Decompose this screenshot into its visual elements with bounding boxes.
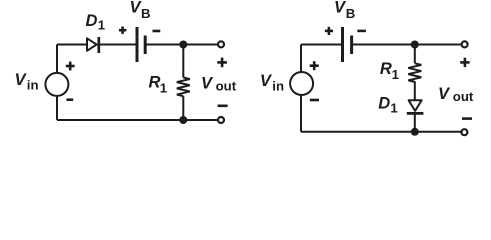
svg-text:1: 1 <box>390 100 397 115</box>
minus sign of Vin source right circuit <box>310 99 319 102</box>
svg-text:D: D <box>86 12 98 30</box>
wire right circuit branch lead resistor to diode <box>414 81 416 100</box>
wire right circuit bottom rail <box>301 131 461 133</box>
wire left circuit resistor branch bottom lead <box>182 96 184 120</box>
svg-text:1: 1 <box>392 67 399 82</box>
svg-text:R: R <box>380 60 392 78</box>
wire right circuit left vertical top <box>300 45 302 72</box>
wire left circuit top rail segment diode bar to battery <box>99 44 136 46</box>
source Vin left circuit <box>45 73 68 96</box>
source Vin right circuit <box>290 72 313 95</box>
svg-text:in: in <box>272 79 284 94</box>
diode D1 right circuit triangle and cathode bar <box>407 100 424 113</box>
svg-text:B: B <box>346 6 356 21</box>
wire left circuit top rail segment from corner to diode <box>57 44 87 46</box>
battery VB right circuit long and short plates <box>343 27 352 62</box>
svg-text:D: D <box>378 94 390 112</box>
wire right circuit branch lead junction to resistor <box>414 45 416 64</box>
svg-text:V: V <box>438 85 451 103</box>
svg-text:B: B <box>141 6 151 21</box>
svg-text:V: V <box>15 71 28 89</box>
node top junction left circuit <box>179 41 187 49</box>
minus sign of Vin source left circuit <box>66 98 73 101</box>
plus sign of Vin source left circuit <box>66 62 75 71</box>
svg-text:R: R <box>149 73 161 91</box>
minus sign of Vout left circuit <box>218 105 228 108</box>
wire right circuit top rail segment corner to battery <box>301 44 341 46</box>
plus sign of battery VB left circuit <box>119 27 126 34</box>
wire right circuit left vertical bottom <box>300 95 302 131</box>
wire left circuit top rail segment battery to top terminal <box>146 44 217 46</box>
wire left circuit bottom rail <box>57 119 217 121</box>
wire left circuit left vertical bottom <box>56 96 58 120</box>
minus sign of Vout right circuit <box>462 117 472 120</box>
svg-text:1: 1 <box>160 80 167 95</box>
terminal top left circuit <box>218 41 224 47</box>
terminal bottom right circuit <box>461 129 467 135</box>
resistor R1 left circuit zigzag <box>177 78 190 97</box>
node top junction right circuit <box>411 41 419 49</box>
battery VB left circuit long and short plates <box>137 27 145 62</box>
terminal bottom left circuit <box>218 117 224 123</box>
node bottom junction left circuit <box>179 116 187 124</box>
svg-text:1: 1 <box>98 17 105 32</box>
minus sign of battery VB right circuit <box>357 30 366 33</box>
plus sign of Vin source right circuit <box>310 61 319 70</box>
plus sign of Vout right circuit <box>460 58 469 67</box>
node bottom junction right circuit <box>411 128 419 136</box>
diode D1 left circuit triangle and cathode bar <box>87 37 99 53</box>
svg-text:in: in <box>27 78 39 93</box>
svg-text:out: out <box>453 89 474 104</box>
wire right circuit branch lead diode bar to bottom junction <box>414 113 416 131</box>
plus sign of battery VB right circuit <box>325 27 333 35</box>
svg-text:V: V <box>201 75 214 93</box>
plus sign of Vout left circuit <box>217 58 227 68</box>
resistor R1 right circuit zigzag <box>408 63 421 82</box>
minus sign of battery VB left circuit <box>153 30 161 33</box>
svg-text:V: V <box>260 72 273 90</box>
svg-text:out: out <box>216 79 237 94</box>
wire left circuit left vertical top <box>56 45 58 73</box>
wire left circuit resistor branch top lead <box>182 45 184 78</box>
wire right circuit top rail segment battery to top terminal <box>353 44 461 46</box>
terminal top right circuit <box>462 41 468 47</box>
